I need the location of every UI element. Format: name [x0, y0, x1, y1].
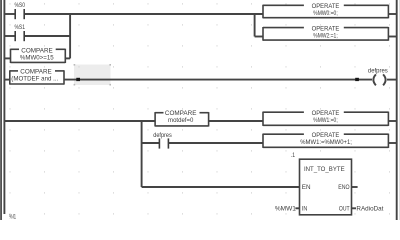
selection highlight cell — [74, 64, 111, 86]
wire rung5 exit (B3 to OPERATE U3) — [209, 120, 263, 122]
svg-text:defpres: defpres — [153, 132, 172, 139]
wire rung5 (rail to COMPARE B3) — [4, 120, 155, 122]
svg-text:(MOTDEF and ...: (MOTDEF and ... — [11, 75, 58, 82]
contact %S1 — [15, 24, 26, 41]
operate block U1 %MW0:=0; — [263, 3, 388, 18]
svg-text:ENO: ENO — [338, 184, 349, 191]
junction dot (selected cell) — [76, 78, 80, 81]
coil defpres — [368, 68, 388, 86]
svg-text:defpres: defpres — [368, 68, 388, 75]
function block U5 INT_TO_BYTE — [300, 159, 352, 215]
svg-text:INT_TO_BYTE: INT_TO_BYTE — [304, 166, 345, 173]
wire U4 output to rail — [388, 142, 396, 144]
svg-text:IN: IN — [302, 205, 308, 212]
svg-text:EN: EN — [302, 184, 311, 191]
compare block B2 (MOTDEF and ...) — [10, 69, 64, 85]
operate block U3 %MW1:=0; — [263, 110, 388, 126]
wire rung3 left stub (rail to COMPARE B1) — [4, 57, 11, 59]
window right edge — [398, 0, 400, 220]
svg-text:%I1: %I1 — [9, 215, 16, 220]
svg-text:.1: .1 — [291, 152, 296, 159]
wire rung1 (from %S0 to OPERATE U1) — [24, 13, 263, 15]
svg-text:%MW0>=15: %MW0>=15 — [20, 54, 54, 61]
compare block B1 %MW0>=15 — [11, 48, 66, 64]
wire U1 output to rail — [388, 13, 396, 15]
wire U3 output to rail — [388, 120, 396, 122]
svg-text:%S1: %S1 — [15, 24, 26, 31]
wire stub junction B to U2 — [255, 36, 263, 38]
junction B vertical (OPERATE branch split) — [254, 13, 256, 36]
junction A vertical (parallel branches join) — [69, 13, 71, 58]
wire rung4 right stub (coil to rail) — [387, 79, 397, 81]
wire rung2 left stub (rail to %S1) — [4, 35, 15, 37]
operate block U2 %MW2:=1; — [263, 26, 388, 41]
wire rung3 exit (B1 to junction A) — [65, 57, 70, 59]
svg-text:%MW1:=0;: %MW1:=0; — [313, 117, 338, 124]
svg-text:%MW0:=0;: %MW0:=0; — [313, 10, 338, 17]
svg-text:motdef=0: motdef=0 — [168, 117, 194, 124]
left power rail — [3, 0, 5, 214]
svg-text:%MW2:=1;: %MW2:=1; — [313, 32, 338, 39]
wire rung6 (defpres to OPERATE U4) — [168, 142, 263, 144]
junction C vertical (rung5 branch down) — [141, 120, 143, 187]
contact defpres — [153, 132, 172, 149]
svg-text:RAdioDat: RAdioDat — [356, 205, 383, 212]
svg-text:OUT: OUT — [339, 205, 350, 212]
wire OUT stub — [352, 207, 357, 209]
wire ENO stub — [352, 186, 358, 188]
svg-text:%MW1:=%MW0+1;: %MW1:=%MW0+1; — [300, 139, 352, 146]
wire U2 output to rail — [388, 36, 396, 38]
wire rung4 (B2 to coil defpres) — [64, 79, 372, 81]
svg-text:%MW1: %MW1 — [275, 205, 297, 212]
junction dot (before coil) — [355, 78, 359, 81]
compare block B3 motdef=0 — [155, 110, 209, 126]
wire rung1 left stub (rail to %S0) — [4, 13, 15, 15]
wire rung2 (from %S1 to junction A) — [24, 35, 70, 37]
operate block U4 %MW1:=%MW0+1; — [263, 132, 388, 148]
right power rail — [396, 0, 398, 220]
contact %S0 — [15, 2, 26, 19]
wire EN input (junction C to INT_TO_BYTE) — [142, 186, 300, 188]
wire rung6 stub (junction C to defpres contact) — [142, 142, 160, 144]
wire rung4 left stub (rail to COMPARE B2) — [4, 79, 10, 81]
wire IN stub — [295, 207, 299, 209]
window left border — [0, 0, 2, 220]
svg-text:%S0: %S0 — [15, 2, 26, 9]
